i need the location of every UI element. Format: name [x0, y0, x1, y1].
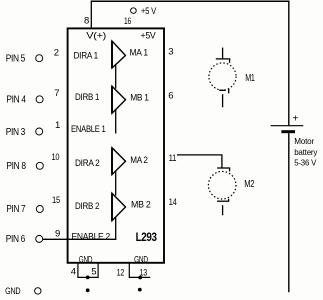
wire chain MB2 to ENABLE 2 — [115, 217, 117, 240]
svg-text:M1: M1 — [245, 73, 255, 84]
ground bracket pins 4-5 — [78, 263, 98, 277]
svg-text:DIRA 1: DIRA 1 — [74, 51, 99, 62]
terminal circle PIN 8 — [36, 162, 43, 169]
svg-text:12: 12 — [117, 267, 125, 278]
terminal circle GND — [35, 288, 41, 294]
battery BT1 positive plate — [271, 125, 304, 127]
svg-text:V(+): V(+) — [86, 31, 106, 42]
svg-text:PIN 4: PIN 4 — [6, 94, 26, 105]
wire top rail from pin 8 to battery + — [91, 0, 289, 2]
svg-text:+5 V: +5 V — [141, 6, 157, 17]
svg-text:GND: GND — [79, 254, 93, 264]
battery BT1 negative plate — [281, 130, 295, 133]
svg-text:PIN 5: PIN 5 — [6, 54, 26, 65]
svg-text:MA 1: MA 1 — [130, 47, 148, 58]
op-amp IC box U1 L293 — [68, 28, 164, 262]
terminal circle PIN 4 — [36, 96, 43, 103]
svg-text:6: 6 — [168, 91, 173, 102]
svg-text:5-36 V: 5-36 V — [294, 157, 316, 167]
svg-text:GND: GND — [134, 254, 148, 264]
svg-text:2: 2 — [54, 48, 59, 59]
motor M2 body circle — [208, 171, 236, 199]
svg-text:PIN 3: PIN 3 — [6, 127, 26, 138]
svg-text:1: 1 — [55, 120, 60, 131]
wire battery bottom — [288, 133, 290, 292]
svg-text:ENABLE 2: ENABLE 2 — [72, 232, 111, 243]
svg-text:16: 16 — [124, 16, 131, 27]
wire pin 8 drop to IC box — [90, 1, 92, 29]
wire M1 top — [222, 48, 224, 59]
terminal circle PIN 5 — [36, 55, 43, 62]
node dot ground right — [138, 288, 142, 292]
ground bracket pins 12-13 — [129, 263, 150, 277]
svg-text:4: 4 — [71, 267, 76, 278]
wire chain MB1 to ENABLE 1 — [115, 110, 117, 134]
wire chain MA2 to MB2 — [115, 171, 117, 196]
buffer triangle MB1 — [112, 86, 126, 113]
svg-text:PIN 8: PIN 8 — [6, 161, 26, 172]
svg-text:14: 14 — [169, 197, 177, 208]
svg-text:GND: GND — [5, 286, 21, 296]
wire PIN 6 to ENABLE 2 chain — [43, 238, 117, 240]
motor M1 brush hook top — [229, 59, 231, 63]
terminal circle PIN 6 — [36, 235, 43, 242]
node dot ground left — [86, 288, 90, 292]
motor M2 brush hook top — [229, 168, 231, 171]
wire M2 bottom — [222, 205, 224, 215]
buffer triangle MB2 — [112, 193, 126, 221]
svg-text:15: 15 — [52, 195, 60, 206]
motor M1 brush bar bottom — [219, 89, 226, 91]
svg-text:13: 13 — [140, 267, 148, 278]
svg-text:3: 3 — [168, 47, 173, 58]
svg-text:MA 2: MA 2 — [130, 155, 148, 166]
motor M2 brush bar top — [217, 167, 230, 169]
svg-text:DIRA 2: DIRA 2 — [75, 158, 100, 169]
svg-text:10: 10 — [52, 152, 60, 163]
svg-text:PIN 6: PIN 6 — [6, 234, 26, 245]
svg-text:L293: L293 — [136, 232, 157, 244]
motor M1 brush hook bottom — [228, 89, 230, 93]
svg-text:battery: battery — [294, 147, 318, 157]
motor M2 brush bar bottom — [217, 200, 229, 202]
svg-text:11: 11 — [169, 153, 177, 164]
motor M2 brush hook bottom — [228, 199, 230, 201]
buffer triangle MA2 — [112, 148, 126, 175]
svg-text:DIRB 2: DIRB 2 — [75, 201, 99, 212]
svg-text:MB 2: MB 2 — [131, 199, 151, 210]
svg-text:+: + — [293, 113, 299, 124]
junction dot pins 4-5 — [86, 276, 90, 280]
svg-text:Motor: Motor — [294, 136, 314, 146]
svg-text:9: 9 — [55, 229, 60, 240]
wire pin 11 to M2 — [177, 155, 222, 168]
svg-text:+5V: +5V — [141, 31, 157, 42]
svg-text:ENABLE 1: ENABLE 1 — [71, 124, 106, 135]
terminal circle PIN 3 — [36, 128, 43, 135]
svg-text:5: 5 — [91, 267, 96, 278]
buffer triangle MA1 — [112, 41, 126, 68]
svg-text:7: 7 — [54, 88, 59, 99]
terminal +5V circle — [131, 8, 137, 14]
svg-text:8: 8 — [84, 16, 89, 27]
terminal circle PIN 7 — [36, 206, 43, 213]
wire battery top — [288, 1, 290, 126]
svg-text:M2: M2 — [244, 179, 255, 190]
svg-text:MB 1: MB 1 — [130, 92, 149, 103]
wire M1 bottom — [222, 94, 224, 107]
svg-text:PIN 7: PIN 7 — [6, 204, 25, 215]
junction dot pins 12-13 — [138, 276, 142, 280]
motor M1 body circle — [209, 63, 236, 90]
motor M1 brush bar top — [216, 58, 230, 60]
svg-text:DIRB 1: DIRB 1 — [75, 92, 99, 103]
wire chain MA1 to MB1 — [115, 64, 117, 88]
